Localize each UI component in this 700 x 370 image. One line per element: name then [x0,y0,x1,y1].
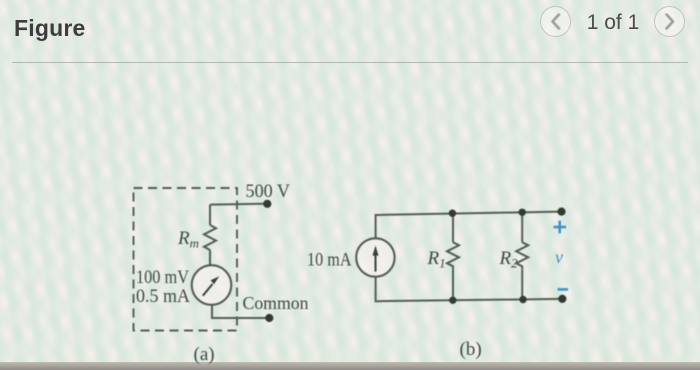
svg-text:Rm: Rm [177,228,199,251]
svg-text:(a): (a) [194,344,215,365]
svg-text:Common: Common [243,293,309,313]
svg-text:(b): (b) [460,339,482,360]
svg-text:0.5 mA: 0.5 mA [136,286,190,307]
svg-text:10 mA: 10 mA [307,250,352,271]
svg-text:100 mV: 100 mV [136,267,189,288]
svg-text:500 V: 500 V [246,181,291,202]
svg-text:R1: R1 [427,248,446,271]
svg-text:v: v [555,247,563,267]
